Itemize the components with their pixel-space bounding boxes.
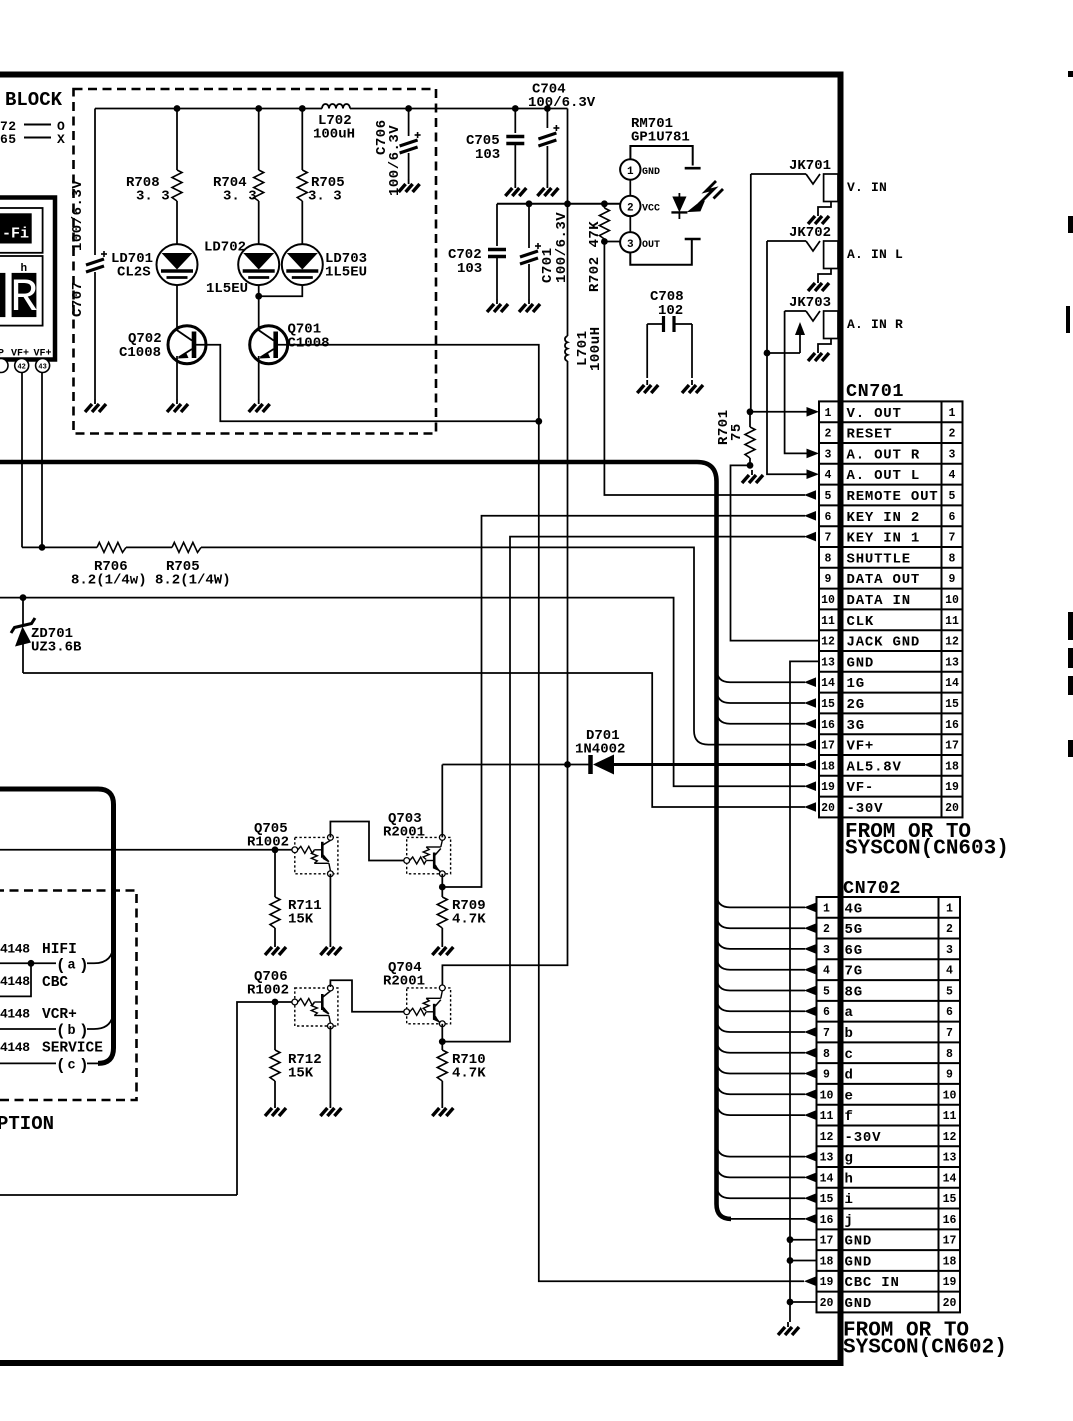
border frame top <box>0 72 844 78</box>
svg-text:A. IN R: A. IN R <box>847 317 903 332</box>
bus branch y948 <box>717 935 806 949</box>
resistor R705 <box>301 109 303 171</box>
svg-text:4: 4 <box>946 965 953 978</box>
svg-text:CN701: CN701 <box>846 381 904 402</box>
svg-text:8: 8 <box>825 552 832 565</box>
bus branch y1011 <box>717 997 806 1011</box>
svg-text:7: 7 <box>949 532 956 545</box>
transistor Q706 <box>295 988 338 1026</box>
wire L701 to D701 junction <box>567 361 569 765</box>
transistor Q705 <box>295 837 338 873</box>
wire pin42 down <box>21 373 23 548</box>
resistor R711 <box>274 850 276 897</box>
wire VCC <box>497 203 620 205</box>
arrow KEY IN 1 <box>804 532 816 542</box>
display pin 43 <box>36 359 50 373</box>
svg-text:(: ( <box>56 1022 66 1040</box>
arrow A.OUT L <box>807 469 820 479</box>
svg-text:9: 9 <box>949 573 956 586</box>
svg-text:1: 1 <box>823 902 830 915</box>
bus branch y1115 <box>717 1101 806 1115</box>
svg-text:13: 13 <box>945 656 959 669</box>
wire V.OUT <box>750 411 807 413</box>
svg-text:20: 20 <box>945 802 959 815</box>
wire Q701 base <box>275 345 539 422</box>
photodiode RM701 <box>678 193 680 198</box>
svg-text:GP1U781: GP1U781 <box>631 130 690 146</box>
svg-text:15: 15 <box>943 1193 957 1206</box>
ground R709 <box>432 942 453 955</box>
wire option c <box>0 1062 56 1064</box>
transistor Q702 <box>168 326 206 364</box>
svg-text:14: 14 <box>945 677 959 690</box>
wire AL5.8V left <box>442 764 590 766</box>
wire L701 branch <box>567 109 569 337</box>
svg-text:75: 75 <box>729 423 745 441</box>
wire Q705 emitter <box>329 874 331 942</box>
dashed box LED block <box>74 89 437 434</box>
svg-text:b: b <box>68 1024 76 1039</box>
wire LD702 cathode <box>258 285 260 296</box>
svg-text:20: 20 <box>820 1297 834 1310</box>
svg-text:i: i <box>845 1192 854 1208</box>
svg-text:4.7K: 4.7K <box>452 1066 486 1082</box>
wire join to Q701 <box>258 296 260 329</box>
wire JK702 to A.OUT L <box>767 241 807 474</box>
border frame right <box>838 72 844 1367</box>
svg-text:4148: 4148 <box>0 942 30 957</box>
bus branch y682 <box>717 668 806 682</box>
svg-text:19: 19 <box>820 1276 834 1289</box>
svg-text:1: 1 <box>627 166 634 178</box>
ground JK701 <box>808 211 829 224</box>
ground Q705 <box>320 942 341 955</box>
svg-text:4: 4 <box>949 469 956 482</box>
svg-text:1: 1 <box>825 407 832 420</box>
svg-text:42: 42 <box>17 364 25 372</box>
bus branch y907 <box>717 893 806 907</box>
junction dot option a <box>28 960 35 967</box>
junction dot LD702/LD703 <box>255 293 262 300</box>
svg-text:KEY IN 1: KEY IN 1 <box>847 531 921 547</box>
svg-text:4148: 4148 <box>0 1040 30 1055</box>
svg-text:JACK GND: JACK GND <box>847 635 921 651</box>
svg-text:2: 2 <box>825 428 832 441</box>
svg-text:GND: GND <box>845 1296 873 1312</box>
svg-text:7G: 7G <box>845 964 863 980</box>
wire KEY IN 2 <box>442 516 805 887</box>
svg-text:SYSCON(CN603): SYSCON(CN603) <box>845 838 1009 861</box>
ground C702 <box>487 299 508 312</box>
svg-text:8: 8 <box>949 552 956 565</box>
svg-text:3. 3: 3. 3 <box>136 189 170 205</box>
ground JK703 <box>808 348 829 361</box>
wire option b <box>0 1028 56 1030</box>
svg-text:19: 19 <box>945 781 959 794</box>
arrow CBC IN <box>804 1276 816 1286</box>
wire Q706 collector to Q704 <box>330 980 404 1012</box>
svg-text:C1008: C1008 <box>119 345 161 361</box>
svg-text:(: ( <box>56 1057 66 1075</box>
svg-text:18: 18 <box>943 1255 957 1268</box>
junction dot ZD701 <box>20 594 27 601</box>
capacitor C701 <box>528 204 530 248</box>
svg-text:16: 16 <box>943 1214 957 1227</box>
svg-text:VCR+: VCR+ <box>42 1007 77 1023</box>
wire pin43 down <box>41 373 43 548</box>
svg-text:A. OUT R: A. OUT R <box>847 447 921 463</box>
svg-text:19: 19 <box>943 1276 957 1289</box>
svg-text:-30V: -30V <box>847 801 884 817</box>
svg-text:C707: C707 <box>70 281 86 317</box>
ground Q706 <box>320 1103 341 1116</box>
svg-text:16: 16 <box>820 1214 834 1227</box>
svg-text:10: 10 <box>943 1089 957 1102</box>
arrow V.OUT <box>807 407 820 417</box>
svg-text:13: 13 <box>943 1152 957 1165</box>
ground C705 <box>505 183 526 196</box>
svg-text:R2001: R2001 <box>383 974 425 990</box>
svg-text:13: 13 <box>821 656 835 669</box>
svg-text:2: 2 <box>946 923 953 936</box>
svg-text:9: 9 <box>946 1069 953 1082</box>
svg-text:10: 10 <box>945 594 959 607</box>
jack JK703 <box>785 310 806 312</box>
wire option CBC <box>0 963 31 996</box>
svg-text:18: 18 <box>945 760 959 773</box>
svg-text:5: 5 <box>825 490 832 503</box>
wire JK701 to V.OUT <box>750 174 752 412</box>
capacitor C706 <box>408 109 410 137</box>
bus branch y990 <box>717 977 806 991</box>
arrow REMOTE OUT <box>804 490 816 500</box>
bus branch y928 <box>717 914 806 928</box>
resistor R712 <box>274 1002 276 1050</box>
svg-text:8.2(1/4w): 8.2(1/4w) <box>71 573 147 589</box>
svg-text:VF+: VF+ <box>847 739 875 755</box>
svg-text:2: 2 <box>823 923 830 936</box>
IC RM701 case top <box>630 146 692 166</box>
svg-text:20: 20 <box>821 802 835 815</box>
junction dot D701 <box>564 761 571 768</box>
wire Q703 collector <box>441 765 443 838</box>
junction dot R710 <box>439 1038 446 1045</box>
svg-text:100uH: 100uH <box>313 127 355 143</box>
svg-text:2G: 2G <box>847 697 865 713</box>
junction dot Q705 base <box>272 846 279 853</box>
svg-text:UZ3.6B: UZ3.6B <box>31 640 82 656</box>
svg-text:REMOTE OUT: REMOTE OUT <box>847 489 939 505</box>
wire option a <box>0 962 56 964</box>
ground C706 <box>399 179 420 192</box>
bus to CN702 <box>0 462 731 1219</box>
wire L701 to Q704 collector <box>442 765 567 988</box>
svg-text:19: 19 <box>821 781 835 794</box>
svg-text:A. OUT L: A. OUT L <box>847 468 921 484</box>
resistor R701 <box>747 408 754 415</box>
svg-text:15: 15 <box>821 698 835 711</box>
capacitor C702 <box>496 204 498 246</box>
resistor R702 <box>603 204 605 208</box>
svg-text:d: d <box>845 1068 854 1084</box>
svg-text:10: 10 <box>820 1089 834 1102</box>
ground R711 <box>265 942 286 955</box>
svg-text:R1002: R1002 <box>247 983 289 999</box>
wire VF+ R706/R705 <box>22 546 97 548</box>
svg-text:4: 4 <box>825 469 832 482</box>
svg-text:6: 6 <box>823 1006 830 1019</box>
svg-text:V. OUT: V. OUT <box>847 406 902 422</box>
svg-text:100uH: 100uH <box>588 326 604 371</box>
svg-text:13: 13 <box>820 1152 834 1165</box>
junction dot pin43 wire <box>39 544 46 551</box>
svg-text:A. IN L: A. IN L <box>847 247 903 262</box>
svg-text:16: 16 <box>945 719 959 732</box>
svg-text:16: 16 <box>821 719 835 732</box>
svg-text:VCC: VCC <box>642 203 660 214</box>
capacitor C704 <box>546 109 548 129</box>
svg-text:17: 17 <box>820 1235 834 1248</box>
inductor L702 <box>322 104 350 109</box>
bus branch y1198 <box>717 1184 806 1198</box>
LED LD703 <box>282 244 323 285</box>
resistor R710 <box>437 1050 447 1081</box>
svg-text:103: 103 <box>457 261 482 277</box>
svg-text:6: 6 <box>949 511 956 524</box>
svg-text:3: 3 <box>627 239 634 251</box>
wire -30V <box>23 673 805 807</box>
svg-text:12: 12 <box>821 636 835 649</box>
wire JK703 to A.OUT R <box>785 311 807 453</box>
wire RM701 OUT to REMOTE OUT <box>604 242 805 496</box>
svg-text:4: 4 <box>823 965 830 978</box>
svg-text:11: 11 <box>945 615 959 628</box>
display pin 41 <box>0 359 8 373</box>
svg-text:(: ( <box>56 957 66 975</box>
junction dots on rail <box>174 105 181 112</box>
bus branch y969 <box>717 956 806 970</box>
wire Q705 base <box>0 849 292 851</box>
wire Q705 collector to Q703 <box>330 822 404 861</box>
svg-text:R2001: R2001 <box>383 825 425 841</box>
junction dots GND chain <box>787 1236 794 1243</box>
svg-text:12: 12 <box>943 1131 957 1144</box>
svg-text:X: X <box>57 132 65 147</box>
svg-text:9: 9 <box>823 1069 830 1082</box>
IC RM701 pin 1 <box>620 159 640 179</box>
wire Q706 emitter <box>329 1026 331 1103</box>
bus branch y1094 <box>717 1080 806 1094</box>
svg-text:10: 10 <box>821 594 835 607</box>
wire JK702-JK703 link <box>767 352 800 354</box>
wire Q702 base <box>194 345 539 422</box>
border frame bottom <box>0 1360 844 1366</box>
svg-text:1: 1 <box>946 902 953 915</box>
svg-text:DATA IN: DATA IN <box>847 593 911 609</box>
svg-text:12: 12 <box>820 1131 834 1144</box>
svg-text:JK702: JK702 <box>789 225 831 241</box>
svg-text:a: a <box>68 959 76 974</box>
light arrows <box>691 181 723 211</box>
wire AL5.8V right <box>614 763 805 766</box>
IC RM701 pin 2 <box>620 196 640 216</box>
svg-text:R702 47K: R702 47K <box>587 221 603 292</box>
svg-text:BLOCK: BLOCK <box>5 89 63 111</box>
svg-text:): ) <box>79 1022 89 1040</box>
ground JK702 <box>808 278 829 291</box>
svg-text:LD702: LD702 <box>204 240 246 256</box>
svg-text:DATA OUT: DATA OUT <box>847 572 921 588</box>
svg-text:15K: 15K <box>288 912 314 928</box>
ground R701 <box>742 470 763 483</box>
svg-text:11: 11 <box>821 615 835 628</box>
svg-text:4G: 4G <box>845 901 863 917</box>
svg-text:6: 6 <box>825 511 832 524</box>
svg-text:8: 8 <box>823 1048 830 1061</box>
svg-text:GND: GND <box>845 1234 873 1250</box>
svg-text:14: 14 <box>820 1172 834 1185</box>
svg-text:JK701: JK701 <box>789 158 831 174</box>
wire GND stub 20 <box>790 1301 817 1303</box>
svg-text:11: 11 <box>820 1110 834 1123</box>
svg-text:3: 3 <box>949 448 956 461</box>
svg-text:7: 7 <box>946 1027 953 1040</box>
svg-text:4148: 4148 <box>0 1007 30 1022</box>
svg-text:): ) <box>79 1057 89 1075</box>
svg-text:15: 15 <box>945 698 959 711</box>
svg-text:100/6.3V: 100/6.3V <box>70 180 86 251</box>
arrow AL5.8V <box>804 760 816 770</box>
svg-text:15K: 15K <box>288 1066 314 1082</box>
svg-text:CBC: CBC <box>42 975 68 991</box>
wire Q701 emitter <box>258 356 260 399</box>
svg-text:CN702: CN702 <box>843 878 901 899</box>
capacitor C707 <box>94 109 96 256</box>
bus OPTION <box>0 789 114 1063</box>
svg-text:12: 12 <box>945 636 959 649</box>
arrow A.OUT R <box>807 449 820 459</box>
arrow KEY IN 2 <box>804 511 816 521</box>
svg-text:3. 3: 3. 3 <box>308 189 342 205</box>
display window digits <box>0 256 43 326</box>
svg-text:8: 8 <box>946 1048 953 1061</box>
svg-text:20: 20 <box>943 1297 957 1310</box>
wire Q702 emitter <box>176 356 178 399</box>
IC RM701 pin 3 <box>620 232 640 252</box>
svg-text:6G: 6G <box>845 943 863 959</box>
junction dot R702 bottom <box>601 238 608 245</box>
svg-text:4.7K: 4.7K <box>452 912 486 928</box>
bus branch y1032 <box>717 1018 806 1032</box>
wire LD703 to join <box>259 285 303 296</box>
wire GND chain <box>790 661 819 1322</box>
svg-text:1N4002: 1N4002 <box>575 742 625 758</box>
bus branch y723 <box>717 710 806 724</box>
wire KEY IN 1 <box>442 537 805 1042</box>
svg-text:3G: 3G <box>847 718 865 734</box>
svg-text:AL5.8V: AL5.8V <box>847 759 902 775</box>
connector CN702 table <box>817 897 961 1312</box>
svg-text:1L5EU: 1L5EU <box>325 265 367 281</box>
resistor R708 <box>176 109 178 171</box>
svg-text:65: 65 <box>0 132 17 147</box>
svg-text:5: 5 <box>949 490 956 503</box>
svg-text:j: j <box>845 1213 854 1229</box>
ground C701 <box>519 299 540 312</box>
svg-text:R1002: R1002 <box>247 835 289 851</box>
svg-text:): ) <box>79 957 89 975</box>
display module box <box>0 198 55 360</box>
junction dot R709 <box>439 884 446 891</box>
svg-text:g: g <box>845 1151 854 1167</box>
svg-text:5G: 5G <box>845 922 863 938</box>
svg-text:c: c <box>68 1059 76 1074</box>
svg-text:RESET: RESET <box>847 427 893 443</box>
ground C708 left <box>637 380 658 393</box>
capacitor C708 <box>662 316 665 332</box>
junction dots VCC <box>526 200 533 207</box>
svg-text:3: 3 <box>825 448 832 461</box>
svg-text:11: 11 <box>943 1110 957 1123</box>
bus branch y1052 <box>717 1039 806 1053</box>
jack JK702 <box>767 240 806 242</box>
display pin 42 <box>15 359 29 373</box>
display window Hi-Fi <box>0 208 43 253</box>
svg-text:PTION: PTION <box>0 1113 54 1135</box>
svg-text:100/6.3V: 100/6.3V <box>528 95 596 111</box>
wire CBC IN <box>539 421 804 1281</box>
svg-text:14: 14 <box>821 677 835 690</box>
inductor L701 <box>565 336 568 361</box>
svg-text:8.2(1/4W): 8.2(1/4W) <box>155 573 231 589</box>
wire Q704 emitter <box>441 1024 443 1050</box>
svg-text:a: a <box>845 1005 854 1021</box>
svg-text:CL2S: CL2S <box>117 265 151 281</box>
diode D701 <box>588 755 593 774</box>
svg-text:GND: GND <box>845 1254 873 1270</box>
arrow JK703 contact <box>795 322 805 335</box>
arrow -30V <box>804 802 816 812</box>
wire 5V rail <box>95 108 322 110</box>
bus branch y1156 <box>717 1143 806 1157</box>
svg-text:CLK: CLK <box>847 614 875 630</box>
svg-text:V. IN: V. IN <box>847 180 887 195</box>
svg-text:14: 14 <box>943 1172 957 1185</box>
svg-text:17: 17 <box>821 740 835 753</box>
svg-text:43: 43 <box>38 364 46 372</box>
ground GND chain <box>778 1322 799 1335</box>
wire VF- <box>0 598 805 787</box>
svg-text:9: 9 <box>825 573 832 586</box>
dashed box OPTION <box>0 891 137 1101</box>
arrow bus j <box>804 1214 816 1224</box>
bus branch y703 <box>717 689 806 703</box>
svg-text:100/6.3V: 100/6.3V <box>387 125 403 196</box>
svg-text:JK703: JK703 <box>789 295 831 311</box>
svg-text:VF-: VF- <box>847 780 875 796</box>
svg-text:3: 3 <box>823 944 830 957</box>
svg-text:17: 17 <box>943 1235 957 1248</box>
svg-text:OUT: OUT <box>642 240 660 251</box>
svg-text:5: 5 <box>823 985 830 998</box>
svg-text:b: b <box>845 1026 854 1042</box>
svg-text:-Fi: -Fi <box>2 226 29 243</box>
svg-text:GND: GND <box>847 655 875 671</box>
svg-text:7: 7 <box>825 532 832 545</box>
resistor R709 <box>437 897 447 928</box>
svg-text:18: 18 <box>820 1255 834 1268</box>
svg-text:1G: 1G <box>847 676 865 692</box>
